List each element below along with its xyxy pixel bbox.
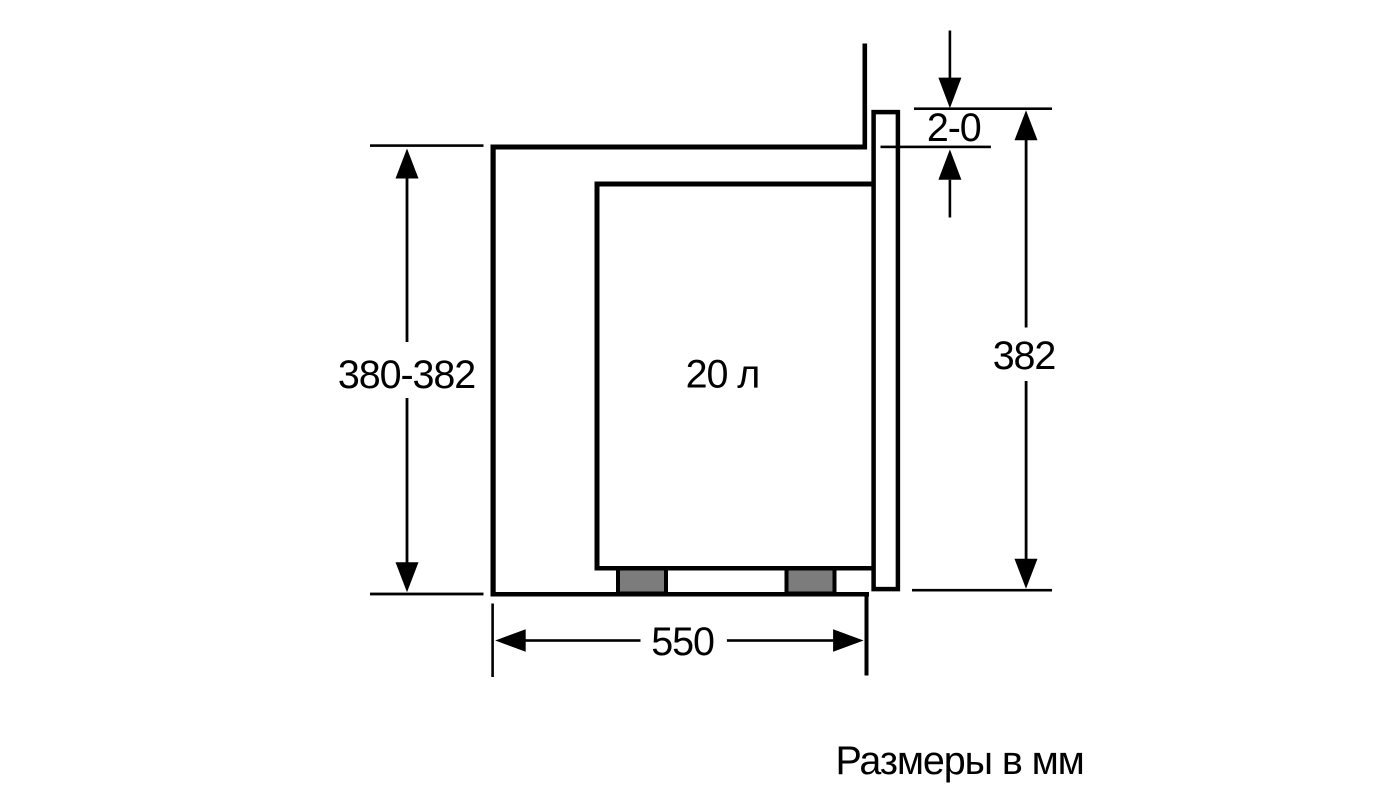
dim 382 arrow shaft upper: [1025, 140, 1028, 328]
dim 2-0 down arrow shaft: [949, 31, 952, 79]
svg-text:Размеры в мм: Размеры в мм: [836, 739, 1084, 783]
dim 2-0 down arrowhead: [938, 78, 961, 109]
svg-text:380-382: 380-382: [338, 353, 475, 397]
dim 382 bottom tick line: [912, 589, 1052, 592]
svg-text:2-0: 2-0: [927, 106, 981, 150]
cabinet wall above niche: [863, 44, 868, 150]
niche left wall: [491, 145, 496, 597]
dim 550 line left segment: [526, 639, 641, 642]
dim 2-0 up arrow shaft: [949, 180, 952, 218]
dim 550 line right segment: [727, 639, 833, 642]
svg-text:20 л: 20 л: [686, 353, 760, 397]
door front panel: [874, 112, 898, 589]
dim 380-382 arrow shaft upper: [406, 172, 409, 342]
dim 382 arrowhead down: [1015, 559, 1038, 589]
svg-text:550: 550: [651, 620, 714, 664]
microwave body bottom side: [595, 566, 872, 571]
dim 380-382 top tick line: [370, 144, 484, 147]
niche top edge: [491, 145, 868, 150]
microwave body top side: [595, 182, 872, 187]
dim 550 arrowhead right: [833, 629, 864, 651]
foot left: [618, 569, 666, 594]
svg-text:382: 382: [993, 334, 1056, 378]
dim 382 arrow shaft lower: [1025, 381, 1028, 559]
dim 550 left extension line: [491, 604, 494, 678]
dim 2-0 upper line: [914, 107, 1052, 110]
niche floor: [491, 592, 870, 597]
microwave body left side: [595, 182, 600, 571]
dim 382 arrowhead up: [1015, 110, 1038, 140]
foot right: [787, 569, 835, 594]
dim 2-0 up arrowhead: [938, 149, 961, 179]
dim 380-382 bottom tick line: [370, 593, 484, 596]
dim 380-382 arrow shaft lower: [406, 398, 409, 568]
dim 550 arrowhead left: [495, 629, 526, 651]
dim 550 right extension line: [865, 593, 869, 676]
dim 380-382 arrowhead down: [396, 562, 419, 592]
dim 2-0 lower line: [881, 146, 991, 149]
dim 380-382 arrowhead up: [396, 149, 419, 179]
